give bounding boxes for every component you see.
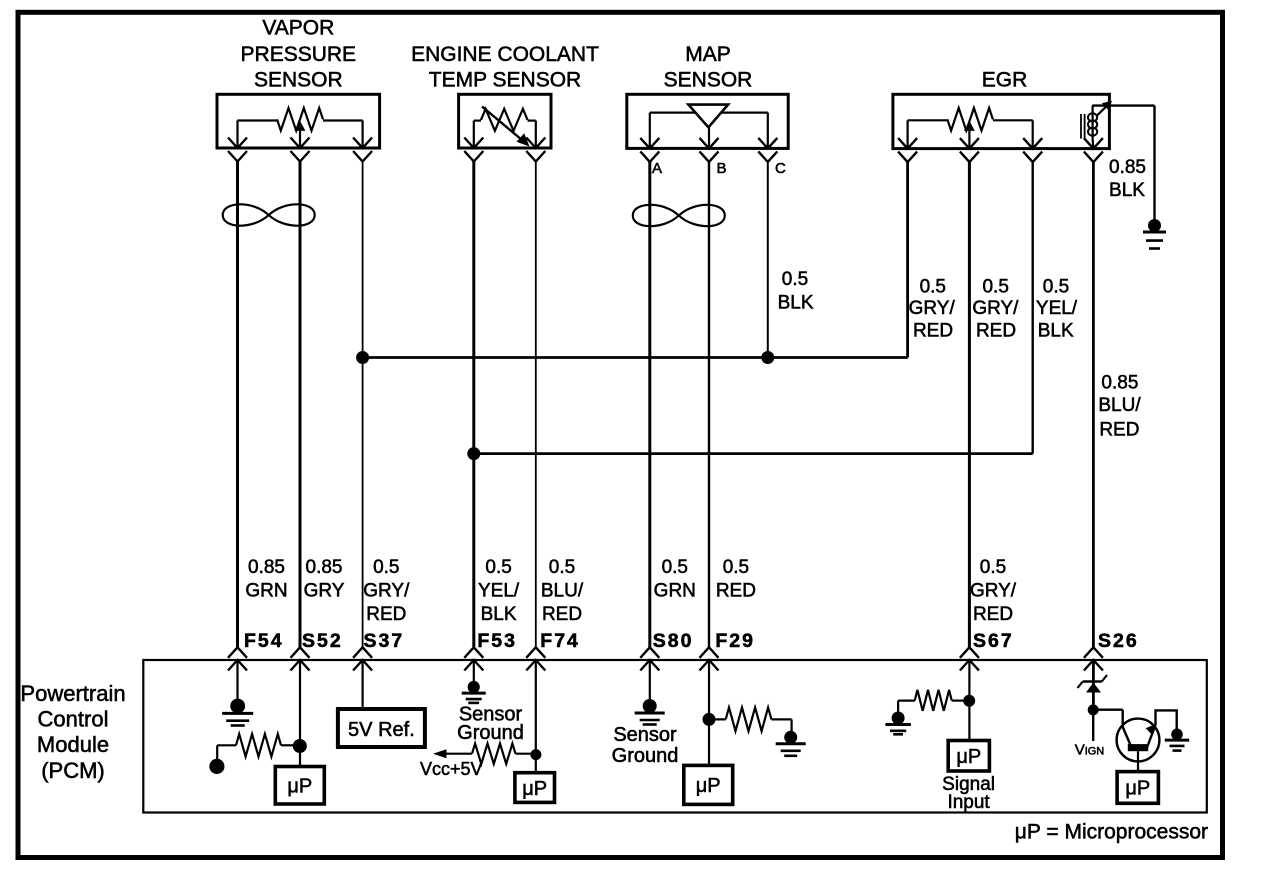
engine coolant temp sensor box bbox=[459, 94, 551, 148]
svg-text:(PCM): (PCM) bbox=[41, 758, 105, 783]
zener diode on S26 bbox=[1083, 680, 1102, 682]
sensor ground at F53 bbox=[468, 681, 480, 693]
microprocessor box 2 bbox=[515, 773, 555, 803]
svg-text:BLU/: BLU/ bbox=[541, 580, 584, 601]
connector terminals A B C at MAP sensor bbox=[640, 138, 659, 149]
wire EGR 0.5 GRY/RED to bus bbox=[906, 162, 909, 358]
svg-text:F29: F29 bbox=[715, 630, 755, 652]
svg-text:S26: S26 bbox=[1098, 630, 1139, 652]
S67 internal wire bbox=[968, 660, 970, 741]
wire VIGN node to transistor bbox=[1093, 709, 1123, 711]
EGR solenoid coil bbox=[1091, 106, 1093, 139]
svg-text:0.5: 0.5 bbox=[982, 277, 1008, 298]
transistor emitter with arrow bbox=[1147, 725, 1156, 748]
S52 internal wire bbox=[299, 660, 301, 767]
ground at F54 bbox=[230, 699, 245, 714]
vapor pressure sensor box bbox=[217, 94, 380, 148]
emitter wire to ground bbox=[1156, 710, 1177, 729]
junction MAP C/bus bbox=[761, 351, 774, 364]
wire S26 0.85 BLU/RED bbox=[1092, 162, 1095, 648]
transistor base bar bbox=[1128, 744, 1148, 751]
svg-text:YEL/: YEL/ bbox=[478, 580, 520, 601]
svg-text:S37: S37 bbox=[364, 630, 405, 652]
microprocessor box 4 bbox=[948, 741, 989, 772]
svg-text:ENGINE COOLANT: ENGINE COOLANT bbox=[411, 43, 599, 66]
junction S67/resistor bbox=[963, 695, 975, 707]
svg-text:BLU/: BLU/ bbox=[1098, 395, 1141, 416]
svg-text:μP: μP bbox=[1125, 778, 1150, 800]
svg-text:F53: F53 bbox=[477, 630, 517, 652]
svg-text:0.5: 0.5 bbox=[1043, 277, 1069, 298]
svg-text:0.5: 0.5 bbox=[723, 557, 749, 578]
svg-text:GRN: GRN bbox=[245, 580, 287, 601]
VIGN stub wire bbox=[1092, 710, 1094, 741]
EGR box bbox=[893, 94, 1110, 148]
sensor ground bus wire bbox=[363, 356, 908, 359]
wire 0.85 BLK from EGR to ground bbox=[1092, 104, 1154, 106]
F29 internal wire bbox=[708, 660, 710, 765]
svg-text:0.5: 0.5 bbox=[485, 557, 511, 578]
svg-text:GRY/: GRY/ bbox=[909, 298, 956, 319]
svg-text:0.85: 0.85 bbox=[248, 557, 285, 578]
EGR solenoid core lines bbox=[1080, 114, 1082, 139]
pull-up resistor to S52 bbox=[217, 744, 236, 746]
svg-text:μP: μP bbox=[287, 776, 312, 798]
svg-text:S52: S52 bbox=[302, 630, 343, 652]
svg-text:A: A bbox=[652, 160, 662, 177]
connector terminals at ECT sensor bbox=[464, 138, 483, 149]
EGR potentiometer wiper arrow bbox=[968, 131, 970, 149]
svg-text:BLK: BLK bbox=[1038, 321, 1074, 342]
ground left of S67 resistor bbox=[892, 712, 905, 725]
svg-text:5V Ref.: 5V Ref. bbox=[348, 719, 415, 741]
ground at transistor emitter bbox=[1171, 729, 1183, 741]
svg-text:0.5: 0.5 bbox=[373, 557, 399, 578]
svg-text:S67: S67 bbox=[973, 630, 1014, 652]
F53 internal wire to sensor ground bbox=[473, 660, 475, 681]
connector terminals at vapor pressure sensor bbox=[228, 138, 247, 149]
junction resistor/S52 bbox=[293, 739, 307, 753]
svg-text:F54: F54 bbox=[244, 630, 284, 652]
wire MAP C 0.5 BLK bbox=[767, 162, 769, 358]
svg-text:VAPOR: VAPOR bbox=[262, 17, 334, 40]
transistor Q1 circle bbox=[1117, 719, 1160, 762]
EGR coil feed wire with arrow through box corner bbox=[1097, 104, 1109, 115]
EGR coil bottom lead bbox=[1091, 139, 1094, 149]
pressure transducer wiring in MAP sensor bbox=[650, 111, 768, 113]
svg-text:0.5: 0.5 bbox=[662, 557, 688, 578]
Vcc+5V feed resistor bbox=[444, 753, 472, 755]
junction F29/resistor bbox=[703, 713, 716, 726]
pull resistor at S67 bbox=[898, 699, 915, 701]
svg-text:S80: S80 bbox=[653, 630, 694, 652]
svg-text:0.85: 0.85 bbox=[306, 557, 343, 578]
wire EGR 0.5 YEL/BLK to bus bbox=[1031, 162, 1033, 454]
svg-text:μP: μP bbox=[696, 775, 721, 797]
thermistor diagonal arrow bbox=[482, 107, 525, 143]
transducer triangle bbox=[688, 105, 728, 128]
svg-text:RED: RED bbox=[716, 580, 756, 601]
5V Ref box bbox=[338, 709, 425, 747]
EGR position sensor potentiometer bbox=[908, 119, 948, 121]
svg-text:GRY: GRY bbox=[304, 580, 345, 601]
svg-text:BLK: BLK bbox=[481, 604, 517, 625]
junction resistor/F74 bbox=[530, 749, 541, 760]
svg-text:RED: RED bbox=[1099, 420, 1139, 441]
F54 internal wire to ground bbox=[236, 660, 238, 700]
svg-text:GRY/: GRY/ bbox=[363, 580, 410, 601]
wire F74 0.5 BLU/RED bbox=[535, 162, 537, 648]
svg-text:B: B bbox=[717, 160, 727, 177]
microprocessor box 3 bbox=[684, 765, 733, 804]
svg-text:Input: Input bbox=[947, 792, 990, 813]
S26 internal wire bbox=[1092, 660, 1095, 705]
S37 internal wire bbox=[362, 660, 364, 709]
svg-text:SENSOR: SENSOR bbox=[254, 69, 343, 92]
transistor base lead to microprocessor bbox=[1137, 751, 1139, 771]
svg-text:μP: μP bbox=[522, 778, 547, 800]
terminal dot left of resistor bbox=[209, 759, 224, 774]
wire S80 0.5 GRN bbox=[648, 162, 651, 648]
svg-text:μP = Microprocessor: μP = Microprocessor bbox=[1015, 821, 1208, 844]
svg-text:GRN: GRN bbox=[654, 580, 696, 601]
svg-text:EGR: EGR bbox=[982, 69, 1028, 92]
svg-text:0.85: 0.85 bbox=[1109, 157, 1146, 178]
pull resistor at F29 bbox=[709, 718, 726, 720]
PCM connector chevrons bbox=[228, 647, 247, 658]
PCM box bbox=[143, 660, 1207, 813]
svg-text:RED: RED bbox=[542, 604, 582, 625]
wire F54 0.85 GRN bbox=[236, 162, 239, 648]
svg-text:0.5: 0.5 bbox=[980, 557, 1006, 578]
svg-text:0.5: 0.5 bbox=[782, 269, 808, 290]
wire F29 0.5 RED bbox=[708, 162, 710, 648]
ground symbol top right bbox=[1148, 219, 1161, 232]
svg-text:IGN: IGN bbox=[1085, 745, 1105, 757]
VIGN node junction bbox=[1088, 704, 1099, 715]
svg-text:GRY/: GRY/ bbox=[972, 298, 1019, 319]
svg-text:TEMP SENSOR: TEMP SENSOR bbox=[429, 69, 581, 92]
svg-text:RED: RED bbox=[366, 604, 406, 625]
svg-text:μP: μP bbox=[956, 746, 981, 768]
microprocessor box 1 bbox=[275, 767, 324, 805]
svg-text:RED: RED bbox=[973, 604, 1013, 625]
svg-text:0.85: 0.85 bbox=[1101, 373, 1138, 394]
twisted pair symbol MAP sensor bbox=[633, 205, 725, 226]
svg-text:0.5: 0.5 bbox=[920, 277, 946, 298]
svg-text:Control: Control bbox=[38, 707, 109, 732]
svg-text:Sensor: Sensor bbox=[613, 724, 677, 746]
svg-text:0.5: 0.5 bbox=[549, 557, 575, 578]
svg-text:V: V bbox=[1075, 741, 1085, 758]
MAP sensor box bbox=[627, 94, 788, 148]
wire S52 0.85 GRY bbox=[299, 162, 302, 648]
svg-text:SENSOR: SENSOR bbox=[664, 69, 753, 92]
svg-text:BLK: BLK bbox=[1109, 180, 1145, 201]
S80 internal wire to sensor ground bbox=[649, 660, 651, 700]
wiper arrow of potentiometer bbox=[299, 131, 301, 148]
junction S37/bus bbox=[356, 351, 369, 364]
svg-text:Ground: Ground bbox=[457, 722, 524, 744]
svg-text:Vcc+5V: Vcc+5V bbox=[420, 759, 483, 779]
ground right of F29 resistor bbox=[784, 731, 797, 744]
svg-text:GRY/: GRY/ bbox=[970, 580, 1017, 601]
svg-text:YEL/: YEL/ bbox=[1036, 298, 1078, 319]
svg-text:F74: F74 bbox=[540, 630, 580, 652]
svg-text:C: C bbox=[775, 160, 786, 177]
svg-text:PRESSURE: PRESSURE bbox=[241, 43, 357, 66]
F74 internal wire bbox=[535, 660, 537, 773]
wire F53 0.5 YEL/BLK bbox=[472, 162, 475, 648]
connector terminals at EGR bbox=[898, 138, 917, 149]
svg-text:MAP: MAP bbox=[685, 43, 731, 66]
wire S67 0.5 GRY/RED bbox=[968, 162, 971, 648]
twisted pair symbol vapor pressure sensor bbox=[223, 204, 315, 225]
microprocessor box 5 bbox=[1117, 772, 1158, 804]
thermistor in ECT sensor bbox=[474, 119, 481, 121]
svg-text:Powertrain: Powertrain bbox=[20, 681, 125, 706]
sensor ground at S80 bbox=[643, 699, 657, 713]
transistor collector lead bbox=[1123, 727, 1131, 745]
wire S37 0.5 GRY/RED bbox=[362, 162, 364, 648]
svg-text:RED: RED bbox=[913, 321, 953, 342]
svg-text:RED: RED bbox=[976, 321, 1016, 342]
svg-text:BLK: BLK bbox=[778, 292, 814, 313]
5V reference bus wire bbox=[474, 452, 1033, 455]
junction F53/bus bbox=[467, 447, 480, 460]
svg-text:Ground: Ground bbox=[612, 745, 679, 767]
svg-text:Module: Module bbox=[37, 732, 109, 757]
potentiometer in vapor pressure sensor bbox=[238, 119, 278, 121]
